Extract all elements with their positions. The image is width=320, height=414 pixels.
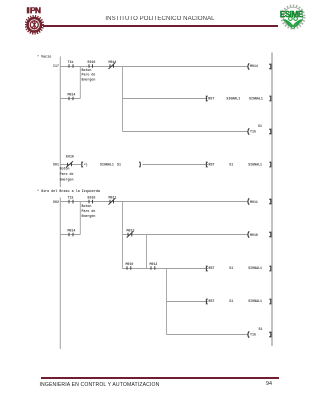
wire: net2 row middle: [143, 164, 209, 166]
footer rule: [41, 377, 279, 379]
letter N: [35, 7, 41, 13]
contact M012 (NO) net3 row3: [150, 262, 158, 270]
contact M013 (NC) net3 row2: [127, 229, 135, 238]
svg-text:S1: S1: [229, 299, 233, 303]
svg-text:M010: M010: [126, 262, 134, 266]
contact E010 (NC) net2: [66, 155, 74, 168]
svg-text:I17: I17: [53, 64, 59, 68]
IPN logo (header left): [25, 5, 45, 36]
svg-text:T1k: T1k: [68, 60, 74, 64]
wire: net3 junction vertical x166: [166, 269, 168, 335]
coil M014 net1: [248, 63, 258, 70]
wire: net3 row4: [167, 301, 209, 303]
svg-text:* Vacio: * Vacio: [37, 55, 51, 60]
svg-text:S1: S1: [229, 266, 233, 270]
svg-text:BotonParo deEmergen: BotonParo deEmergen: [82, 68, 96, 81]
svg-text:M010: M010: [250, 233, 258, 237]
svg-text:T15: T15: [250, 333, 256, 337]
svg-text:BotonParo deEmergen: BotonParo deEmergen: [82, 204, 96, 218]
svg-text:RST: RST: [208, 97, 214, 101]
contact T1k (NO) net3: [68, 196, 74, 204]
rail bracket net3 row5: [269, 332, 271, 336]
svg-text:<): <): [84, 163, 88, 167]
letter I: [27, 7, 30, 13]
letter P: [30, 7, 35, 13]
instruction RST S1 SIGNAL1 (net3 row3): [206, 266, 270, 271]
svg-text:S1: S1: [259, 327, 263, 331]
svg-text:E010: E010: [88, 60, 96, 64]
wire: net3 row3: [123, 268, 209, 270]
contact M011 (NC) net3: [109, 196, 117, 205]
wire: net3 row2 right: [123, 234, 248, 236]
svg-text:S1: S1: [258, 124, 262, 128]
wire: net3 branch vertical x80: [79, 202, 81, 235]
wire: net1 row2 right: [123, 98, 208, 100]
contact M014 (NC) net1: [109, 60, 117, 69]
svg-text:E010: E010: [88, 196, 96, 200]
rail bracket net3 row2: [269, 232, 271, 236]
svg-text:SIGNAL1: SIGNAL1: [100, 163, 114, 167]
svg-text:S1: S1: [117, 163, 121, 167]
wire: net1 branch vertical x80: [79, 67, 81, 99]
svg-text:SIGNAL1: SIGNAL1: [248, 163, 262, 167]
page number: [266, 381, 272, 387]
coil M011 net3 row1: [248, 198, 258, 205]
rail bracket net3 row1: [269, 199, 271, 203]
svg-text:BotonParo deEmergen: BotonParo deEmergen: [60, 167, 74, 182]
svg-text:* Giro del Brazo a la Izquierd: * Giro del Brazo a la Izquierda: [37, 189, 100, 194]
svg-text:SIGNAL1: SIGNAL1: [249, 97, 263, 101]
wire: net3 row5: [167, 334, 248, 336]
inner emblem: [30, 21, 38, 29]
contact E010 (NO) net1: [88, 60, 96, 68]
wire: net1 row1: [60, 66, 247, 68]
footer text: [40, 382, 160, 388]
gear body: [28, 18, 41, 31]
svg-text:M014: M014: [68, 93, 76, 97]
wire: net3 junction vertical x122: [122, 202, 124, 269]
svg-text:M011: M011: [109, 196, 117, 200]
left power rail (network 3): [59, 198, 61, 350]
rail bracket net1 row3: [269, 129, 271, 133]
gear teeth: [26, 16, 43, 33]
svg-text:SIGNAL1: SIGNAL1: [248, 266, 262, 270]
instruction RST SIGNAL1 SIGNAL1 (net1 row2): [206, 96, 270, 101]
svg-text:S01: S01: [53, 163, 59, 167]
header title: [0, 16, 320, 22]
svg-text:M014: M014: [250, 64, 258, 68]
left power rail (networks 1-2): [59, 57, 61, 188]
compare instruction [<] SIGNAL1 S1 } (net2): [82, 162, 141, 167]
svg-text:SIGNAL1: SIGNAL1: [248, 299, 262, 303]
svg-text:S1: S1: [229, 163, 233, 167]
wire: net1 row3: [123, 131, 248, 133]
svg-text:T15: T15: [250, 130, 256, 134]
svg-text:M014: M014: [68, 229, 76, 233]
wire: net2 row left: [60, 164, 81, 166]
rail bracket net1 row1: [269, 64, 271, 68]
instruction RST S1 SIGNAL1 (net2): [206, 162, 270, 167]
wire: net1 junction vertical x122: [122, 67, 124, 132]
svg-text:RST: RST: [209, 163, 215, 167]
contact T1k (NO) net1: [68, 60, 74, 68]
contact E010 (NO) net3: [88, 196, 96, 204]
wire: net3 junction vertical x146: [146, 235, 148, 269]
contact M014 (NO) net1 branch: [68, 93, 76, 101]
coil M010 net3 row2: [248, 231, 258, 238]
svg-text:RST: RST: [209, 266, 215, 270]
wire: net3 row2 left branch: [60, 234, 80, 236]
right power rail: [271, 53, 273, 347]
svg-text:E010: E010: [66, 155, 74, 159]
svg-text:M014: M014: [109, 60, 117, 64]
wire: net1 row2 left branch: [60, 98, 80, 100]
instruction RST S1 SIGNAL1 (net3 row4): [206, 299, 270, 304]
wire: net3 row1: [60, 201, 247, 203]
svg-text:M012: M012: [150, 262, 158, 266]
ESIME logo (header right): [279, 3, 309, 32]
svg-text:RST: RST: [209, 299, 215, 303]
svg-text:M011: M011: [250, 200, 258, 204]
svg-text:T1k: T1k: [68, 196, 74, 200]
svg-text:S02: S02: [53, 200, 59, 204]
coil T15 with S1 (net3 row5): [248, 327, 263, 338]
svg-text:SIGNAL1: SIGNAL1: [226, 97, 240, 101]
contact M014 (NO) net3 branch: [68, 229, 76, 237]
coil T15 with S1 (net1 row3): [248, 124, 262, 135]
header rule: [43, 25, 278, 27]
contact M010 (NO) net3 row3: [126, 262, 134, 270]
